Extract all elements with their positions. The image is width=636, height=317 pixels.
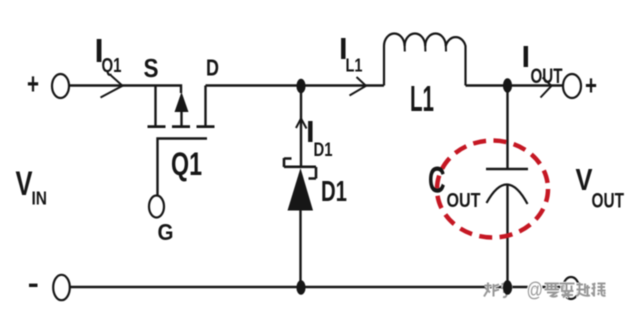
terminal gate circle	[149, 196, 164, 218]
capacitor COUT curved plate	[487, 184, 528, 204]
node junction bottom diode	[296, 280, 305, 295]
wire top rail left	[69, 86, 181, 94]
wire arrow IL1	[350, 77, 367, 96]
transistor Q1 source bar	[148, 125, 166, 128]
red dashed highlight ellipse	[437, 141, 548, 238]
svg-text:D1: D1	[314, 140, 333, 161]
svg-text:I: I	[522, 39, 531, 74]
diode D1 schottky cathode	[284, 158, 316, 179]
wire arrow IOUT	[541, 78, 552, 98]
svg-text:L1: L1	[346, 56, 363, 76]
node junction bottom capacitor	[503, 280, 512, 295]
svg-text:G: G	[158, 219, 174, 245]
wire arrow IQ1	[101, 76, 123, 98]
wire top rail middle	[206, 84, 385, 86]
svg-text:OUT: OUT	[531, 65, 563, 88]
transistor Q1 body diode	[175, 92, 189, 112]
transistor Q1 drain lead	[204, 86, 206, 127]
terminal + input circle	[52, 74, 69, 98]
capacitor COUT top wire	[506, 86, 508, 170]
svg-text:+: +	[585, 70, 597, 101]
svg-text:Q1: Q1	[171, 146, 202, 182]
node junction top capacitor	[503, 78, 512, 93]
svg-text:D1: D1	[321, 176, 347, 208]
svg-text:D: D	[206, 55, 219, 81]
svg-text:IN: IN	[32, 188, 48, 209]
terminal + output circle	[563, 74, 581, 98]
transistor Q1 body diode stem	[180, 110, 182, 127]
wire diode bottom	[299, 208, 301, 287]
label - bottom left	[29, 284, 38, 287]
transistor Q1 source lead	[154, 86, 156, 127]
capacitor COUT top plate	[486, 168, 528, 171]
terminal - output circle	[563, 277, 579, 299]
wire diode top	[300, 86, 302, 167]
svg-text:C: C	[428, 159, 446, 201]
wire top rail right	[466, 84, 564, 86]
svg-text:S: S	[144, 53, 159, 83]
svg-text:@: @	[527, 280, 544, 302]
svg-text:Q1: Q1	[102, 55, 122, 77]
transistor Q1 drain bar	[197, 125, 215, 128]
capacitor COUT bottom wire	[506, 185, 508, 288]
wire bottom rail	[70, 286, 563, 288]
svg-text:OUT: OUT	[447, 189, 481, 212]
svg-text:+: +	[27, 68, 39, 101]
transistor Q1 gate bar	[158, 139, 208, 197]
inductor L1 cusps	[405, 45, 446, 52]
svg-text:L1: L1	[410, 78, 434, 119]
terminal - input circle	[53, 275, 70, 300]
diode D1 anode triangle	[288, 168, 314, 211]
inductor L1	[384, 34, 466, 86]
wire arrow ID1	[296, 119, 307, 129]
node junction bottom capacitor redraw	[503, 280, 512, 295]
svg-text:OUT: OUT	[592, 190, 625, 213]
svg-text:V: V	[16, 165, 33, 203]
transistor Q1 bulk bar	[172, 125, 190, 128]
node junction top diode	[296, 79, 305, 94]
svg-text:V: V	[576, 162, 593, 197]
